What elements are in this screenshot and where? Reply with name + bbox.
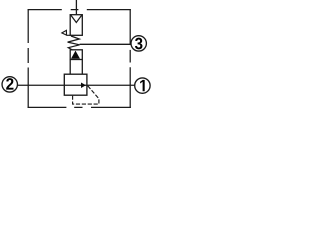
- valve envelope boundary (dash-dot rectangle): [28, 9, 131, 108]
- poppet seat V symbol: [71, 15, 82, 22]
- wire port 3 vertical line at top: [75, 0, 77, 14]
- check seat box: [70, 50, 82, 60]
- wire boundary top edge: [28, 9, 131, 11]
- port circle 2: [2, 77, 17, 92]
- filled poppet triangle: [71, 51, 80, 59]
- wire to port 3 circle: [80, 43, 131, 45]
- wire boundary bottom edge: [28, 106, 131, 108]
- wire boundary left edge: [27, 9, 29, 108]
- spool neck left line: [69, 60, 71, 75]
- open arrowhead at poppet box bottom-left: [62, 30, 67, 35]
- spool neck right line: [81, 60, 83, 75]
- port circle 3: [131, 36, 146, 51]
- dashed pilot line from outlet to spool bottom: [73, 86, 99, 104]
- port circle 1: [135, 78, 150, 93]
- pilot relief poppet box: [70, 15, 82, 36]
- spring: [68, 36, 80, 50]
- flow direction arrowhead: [81, 83, 86, 88]
- wire from arrowhead to poppet box corner: [67, 34, 71, 36]
- port 2 label: [6, 78, 13, 90]
- port 3 label: [135, 38, 143, 50]
- port 1 label: [140, 80, 145, 91]
- main flow line port 2 to port 1: [18, 84, 135, 86]
- main spool box: [64, 74, 87, 95]
- wire boundary right edge: [129, 9, 131, 108]
